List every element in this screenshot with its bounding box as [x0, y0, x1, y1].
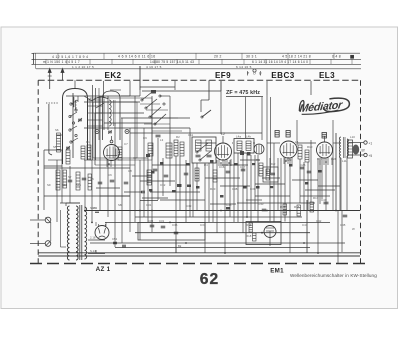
bus wire y203: [237, 202, 315, 204]
IF transformer 2: [234, 139, 254, 154]
capacitor C15: [207, 155, 212, 157]
resistor R11: [305, 150, 309, 162]
detector blobs: [240, 151, 244, 155]
svg-text:R10: R10: [307, 145, 313, 149]
svg-text:R4: R4: [204, 163, 208, 167]
svg-text:AZ 1: AZ 1: [96, 266, 111, 273]
upper connector wires: [84, 66, 311, 101]
wire EF9 grid: [222, 136, 224, 143]
power transformer primary winding: [67, 206, 69, 260]
bus y243: [90, 242, 345, 244]
svg-text:R15: R15: [280, 205, 286, 209]
svg-text:4 16 17 5: 4 16 17 5: [146, 65, 162, 69]
svg-text:C33: C33: [186, 204, 192, 208]
svg-text:R1: R1: [86, 140, 90, 144]
primary top lead: [65, 203, 67, 206]
svg-text:C45: C45: [340, 223, 346, 227]
svg-text:R20: R20: [210, 187, 216, 191]
tube pin dots: [108, 160, 327, 165]
svg-text:L2: L2: [221, 132, 225, 136]
svg-text:C31: C31: [146, 203, 152, 207]
svg-text:L10: L10: [350, 135, 355, 139]
logo underline swash: [302, 110, 339, 115]
svg-text:2.18: 2.18: [90, 236, 96, 240]
capacitor C30: [271, 173, 275, 175]
svg-text:ZF = 475 kHz: ZF = 475 kHz: [226, 90, 260, 96]
svg-text:EK2: EK2: [105, 71, 122, 80]
bus y233: [135, 232, 310, 234]
left horizontal wire: [44, 149, 62, 151]
capacitor C34: [141, 191, 145, 193]
bottom rail 1: [38, 252, 360, 254]
svg-text:C38: C38: [232, 187, 238, 191]
tone network box: [138, 222, 205, 240]
EM1 resistor R18: [253, 233, 257, 241]
svg-text:L3: L3: [160, 138, 164, 142]
coil L7: [286, 131, 290, 138]
shield link wires: [57, 88, 103, 140]
oscillator shield box: [103, 91, 121, 140]
EM1 enclosure: [246, 222, 281, 245]
svg-text:C52: C52: [112, 237, 118, 241]
trimmer capacitor C2: [66, 147, 70, 149]
svg-text:6 14 16 5: 6 14 16 5: [236, 65, 252, 69]
wire EM1 cathode: [269, 238, 271, 246]
svg-text:S5: S5: [53, 145, 57, 149]
svg-text:R16: R16: [294, 205, 300, 209]
left bank bottom wire: [44, 195, 130, 197]
svg-text:W: W: [352, 227, 355, 231]
bus y248: [115, 247, 310, 249]
resistor R15: [283, 204, 287, 215]
capacitor C4: [68, 180, 73, 182]
tube EF9: [215, 143, 232, 160]
capacitor C6b: [98, 182, 103, 184]
speaker pot core: [352, 145, 359, 155]
mains lead 2: [30, 243, 45, 245]
selector link wire: [50, 222, 52, 241]
svg-text:L11: L11: [342, 159, 347, 163]
oscillator coil Lb: [166, 143, 172, 158]
coil L1c: [66, 150, 70, 164]
EM1 grid resistor R19: [249, 223, 253, 232]
resistor S7: [56, 170, 60, 190]
band switch wiper right: [202, 110, 211, 117]
padder capacitor: [156, 135, 161, 137]
capacitor C8b: [124, 182, 129, 184]
chassis dashed border left: [37, 80, 39, 263]
mains voltage selector 2: [45, 241, 51, 247]
svg-text:R18: R18: [246, 234, 252, 238]
capacitor C20: [184, 173, 189, 175]
wire to +1: [349, 142, 364, 144]
component value labels: [47, 128, 355, 238]
chassis dashed border right: [360, 80, 362, 263]
dial scale ticks: [46, 53, 352, 64]
connector wires: [44, 87, 340, 204]
antenna switch wipers: [70, 100, 78, 142]
output section wire x336: [335, 133, 337, 211]
resistor S8: [63, 170, 67, 188]
svg-text:C9: C9: [143, 136, 147, 140]
EK2 grid cap: [110, 140, 113, 143]
svg-text:R19: R19: [246, 223, 252, 227]
AZ1 anode leads: [95, 222, 97, 226]
svg-text:C16: C16: [219, 165, 225, 169]
wire up osc right: [129, 81, 131, 96]
capacitor C52: [113, 242, 117, 244]
osc feed wire: [208, 80, 210, 100]
output transformer: [340, 137, 342, 158]
svg-text:1 1 2 10 17 5: 1 1 2 10 17 5: [72, 65, 94, 69]
speaker terminal +1: [364, 141, 367, 144]
svg-text:C40: C40: [258, 202, 264, 206]
secondary tap S.14: [88, 253, 105, 255]
resistor R1: [118, 147, 122, 160]
svg-text:m 1 N 150 1 4 4 5 1 7: m 1 N 150 1 4 4 5 1 7: [43, 60, 80, 64]
left bank top wire: [44, 167, 130, 169]
capacitor C53: [122, 245, 126, 247]
svg-text:S11: S11: [76, 183, 81, 187]
vertical wires: [57, 66, 347, 263]
svg-text:C25: C25: [300, 163, 306, 167]
antenna switch contacts: [70, 103, 72, 105]
svg-text:62: 62: [200, 271, 220, 288]
capacitor C7b: [110, 180, 115, 182]
tube EM1: [264, 226, 276, 238]
svg-text:R9: R9: [256, 158, 260, 162]
secondary tap 2.18: [88, 239, 105, 241]
svg-text:C52: C52: [92, 206, 98, 210]
svg-text:L4a: L4a: [236, 135, 241, 139]
capacitor C52b: [95, 211, 99, 213]
capacitor C22: [241, 169, 246, 171]
left wire v2: [48, 104, 50, 154]
coil L1d: [81, 146, 85, 159]
resistor S9: [76, 172, 80, 190]
dial pointer arrow 1: [48, 69, 52, 90]
wire stub: [49, 154, 52, 156]
wire grid: [111, 136, 113, 140]
antenna coil shield L1: [63, 89, 88, 165]
resistor R14: [259, 163, 263, 176]
svg-text:C11: C11: [188, 133, 193, 137]
Mediator logo: [298, 97, 350, 116]
svg-text:+1: +1: [369, 142, 373, 146]
capacitor C5b: [82, 178, 87, 180]
capacitor C21: [226, 171, 231, 173]
switch blob: [151, 90, 156, 94]
capacitor C40: [262, 209, 267, 211]
resistor R23: [147, 170, 152, 185]
logo swoosh ellipse: [323, 97, 350, 112]
svg-text:C39: C39: [250, 187, 256, 191]
svg-text:C17: C17: [240, 165, 246, 169]
oscillator core: [113, 100, 115, 126]
left feed wire: [60, 210, 62, 247]
wire up from dome: [74, 80, 76, 88]
svg-text:C41: C41: [302, 223, 308, 227]
antenna coil axis: [72, 93, 74, 158]
secondary tap S.12: [88, 210, 105, 212]
mains lead 1: [30, 219, 45, 221]
detector coil: [254, 144, 264, 154]
grid terminal A: [95, 130, 99, 134]
svg-text:Bf: Bf: [362, 149, 365, 153]
svg-text:EBC3: EBC3: [271, 71, 295, 80]
svg-text:4 12 5 1,6 1 7 8 9 4: 4 12 5 1,6 1 7 8 9 4: [52, 55, 88, 59]
trimmer capacitor C1: [78, 119, 82, 121]
transformer core: [79, 205, 81, 260]
dotted stub: [46, 102, 58, 104]
tuning gang wires: [92, 96, 108, 165]
resistor R7: [195, 168, 199, 181]
svg-text:4 5 18 2 14 21 8: 4 5 18 2 14 21 8: [282, 55, 311, 59]
wire loop rectangle 2: [90, 98, 152, 160]
svg-text:C33: C33: [148, 219, 154, 223]
resistor R6: [180, 142, 184, 156]
capacitor C25: [300, 167, 305, 169]
switch jumper wires: [48, 90, 182, 165]
component blobs: [146, 154, 322, 210]
oscillator trimmers: [108, 131, 112, 133]
svg-text:C37: C37: [200, 223, 206, 227]
svg-text:+5: +5: [369, 154, 373, 158]
svg-text:L4b: L4b: [246, 135, 251, 139]
svg-text:30 3 1: 30 3 1: [246, 55, 257, 59]
chassis dashed border bottom: [30, 263, 370, 265]
transformer secondary winding: [85, 207, 87, 259]
wire box down: [175, 240, 177, 253]
svg-text:14880 75 5 157 14,5 11 43: 14880 75 5 157 14,5 11 43: [150, 60, 194, 64]
capacitor C44: [343, 215, 348, 217]
capacitor C19: [164, 175, 169, 177]
tube AZ1: [95, 224, 109, 240]
resistor S10: [88, 174, 92, 190]
EK2 cathode resistor: [87, 145, 91, 159]
svg-text:S7: S7: [68, 175, 72, 179]
svg-text:EM1: EM1: [270, 267, 284, 274]
left wire v1: [43, 150, 45, 210]
resistor R10: [298, 145, 302, 159]
output transformer frame: [348, 140, 353, 158]
svg-text:R17: R17: [313, 196, 319, 200]
svg-text:C7: C7: [124, 142, 128, 146]
wire v 95: [95, 88, 97, 160]
svg-text:C36: C36: [172, 223, 178, 227]
volume control box: [263, 167, 278, 182]
junction dots: [91, 210, 337, 254]
logo M flourish: [298, 101, 304, 112]
bus y222: [105, 221, 330, 223]
coil L6: [275, 131, 279, 138]
svg-text:R12: R12: [270, 162, 276, 166]
svg-text:S8: S8: [118, 203, 122, 207]
main bus y210: [84, 210, 360, 212]
capacitor C43: [324, 202, 329, 204]
wire AZ1 cathode: [95, 250, 97, 253]
tube EK2: [104, 145, 120, 161]
svg-text:Wellenbereichumschalter in KW-: Wellenbereichumschalter in KW-Stellung: [290, 273, 377, 278]
svg-text:C31: C31: [159, 219, 165, 223]
capacitor C34b: [161, 226, 166, 228]
capacitor C33b: [150, 225, 155, 227]
oscillator coil La: [148, 143, 153, 156]
svg-text:S9: S9: [47, 183, 51, 187]
svg-text:0 4 8: 0 4 8: [332, 55, 341, 59]
chassis dashed border top: [38, 79, 360, 81]
dial pointer arrow 2: [61, 69, 64, 81]
wire y200 stub: [140, 200, 158, 202]
capacitor C14: [196, 155, 201, 157]
speaker terminal +5: [364, 153, 367, 156]
tube EBC3: [280, 141, 297, 158]
antenna coil winding marks: [73, 97, 74, 107]
svg-text:EF9: EF9: [215, 71, 231, 80]
output section wire x307: [306, 200, 308, 253]
IF transformer 1: [192, 137, 216, 163]
svg-text:L8: L8: [295, 140, 299, 144]
svg-text:C23: C23: [286, 158, 292, 162]
coil L1b: [57, 133, 61, 152]
resistor R8: [213, 170, 217, 182]
bottom rail 2: [38, 255, 360, 257]
svg-text:S.14: S.14: [90, 249, 96, 253]
svg-text:C8: C8: [128, 169, 132, 173]
mains voltage selector 1: [45, 217, 51, 223]
svg-text:C42: C42: [316, 219, 322, 223]
bus y217: [135, 216, 302, 218]
svg-text:R2: R2: [176, 135, 180, 139]
svg-text:20 2: 20 2: [214, 55, 222, 59]
resistor R16: [297, 205, 301, 216]
wire to +5: [349, 154, 364, 156]
band switch contacts: [141, 99, 143, 101]
capacitor C35b: [174, 232, 179, 234]
oscillator coil winding: [109, 100, 111, 126]
svg-text:C35: C35: [226, 203, 232, 207]
svg-text:C6: C6: [108, 173, 112, 177]
resistor R17: [310, 202, 314, 212]
tube pin stubs: [107, 157, 332, 167]
tube EL3: [317, 142, 333, 158]
wire loop rectangle: [93, 102, 137, 158]
resistor R5: [174, 140, 178, 156]
svg-text:S6: S6: [55, 128, 59, 132]
capacitor C18: [153, 169, 158, 171]
wire EL3 grid: [324, 136, 326, 142]
wire up osc left: [103, 81, 105, 98]
dial scale assembly: [32, 53, 362, 69]
wire v 92.5: [92, 85, 94, 160]
coil L9: [322, 133, 327, 139]
svg-text:6 1 14 31 16 14 19 4 17 14 6 1: 6 1 14 31 16 14 19 4 17 14 6 14 0: [252, 60, 308, 64]
capacitor C26: [307, 171, 312, 173]
grid terminal B: [125, 130, 129, 134]
svg-text:C32: C32: [160, 183, 166, 187]
svg-text:EL3: EL3: [319, 71, 335, 80]
band switch wipers: [142, 92, 211, 160]
